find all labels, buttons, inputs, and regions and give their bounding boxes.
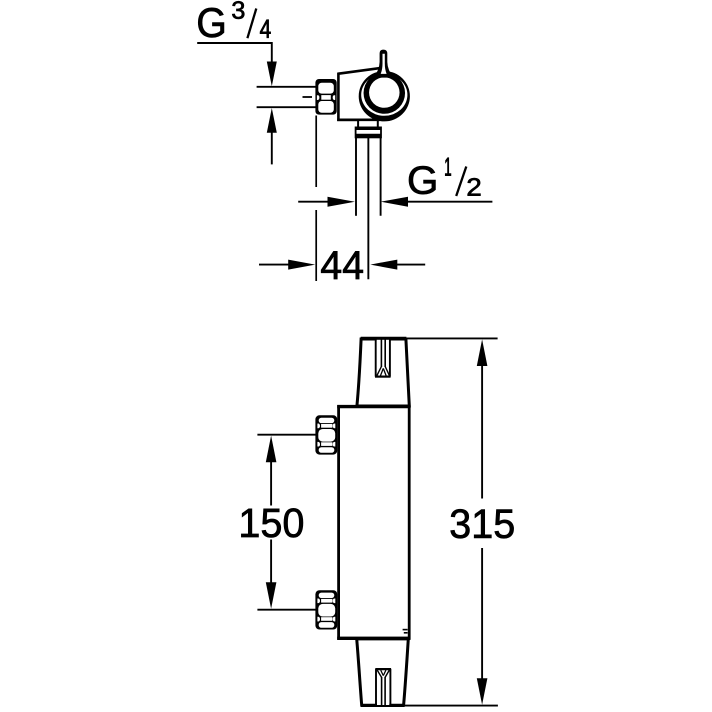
bottom knob grip slot (375, 669, 391, 705)
up arrow below pipe (G 3/4 dimension) (267, 108, 277, 164)
inlet pipe (horizontal) (257, 87, 317, 107)
150 dimension line with arrows (266, 436, 277, 609)
label 44 (321, 251, 363, 279)
44 dimension (259, 260, 425, 270)
315 dimension line with arrows (477, 339, 488, 704)
leader line for G 3/4 (197, 43, 277, 86)
top knob (357, 338, 409, 406)
body bottom edge (337, 119, 379, 122)
bottom knob (357, 639, 409, 706)
neck below body (357, 120, 379, 128)
main body rectangle (337, 407, 410, 639)
centerline tick at pipe axis (303, 96, 313, 98)
collar (thick ring) (356, 127, 381, 137)
top knob grip slot (375, 340, 391, 377)
hex nut (bottom connection, side view) (315, 590, 337, 629)
G 1/2 dimension arrows (298, 197, 492, 207)
lever pin on top of handle (373, 50, 393, 79)
315 dimension extension lines (404, 338, 498, 705)
150 dimension extension lines (257, 435, 317, 610)
label G 3/4 (198, 1, 270, 38)
union nut (end view, top figure) (315, 79, 336, 115)
flow mark inside body (bottom right) (403, 630, 408, 633)
label G 1/2 (409, 158, 480, 196)
hex nut (top connection, side view) (315, 415, 337, 454)
extension line (left, from nut) (315, 116, 317, 282)
label 315 (451, 509, 514, 538)
valve body (quad) (338, 68, 381, 120)
label 150 (241, 508, 303, 537)
outlet pipe (vertical) (356, 137, 381, 279)
handle circle (knob, side view) (359, 71, 410, 121)
